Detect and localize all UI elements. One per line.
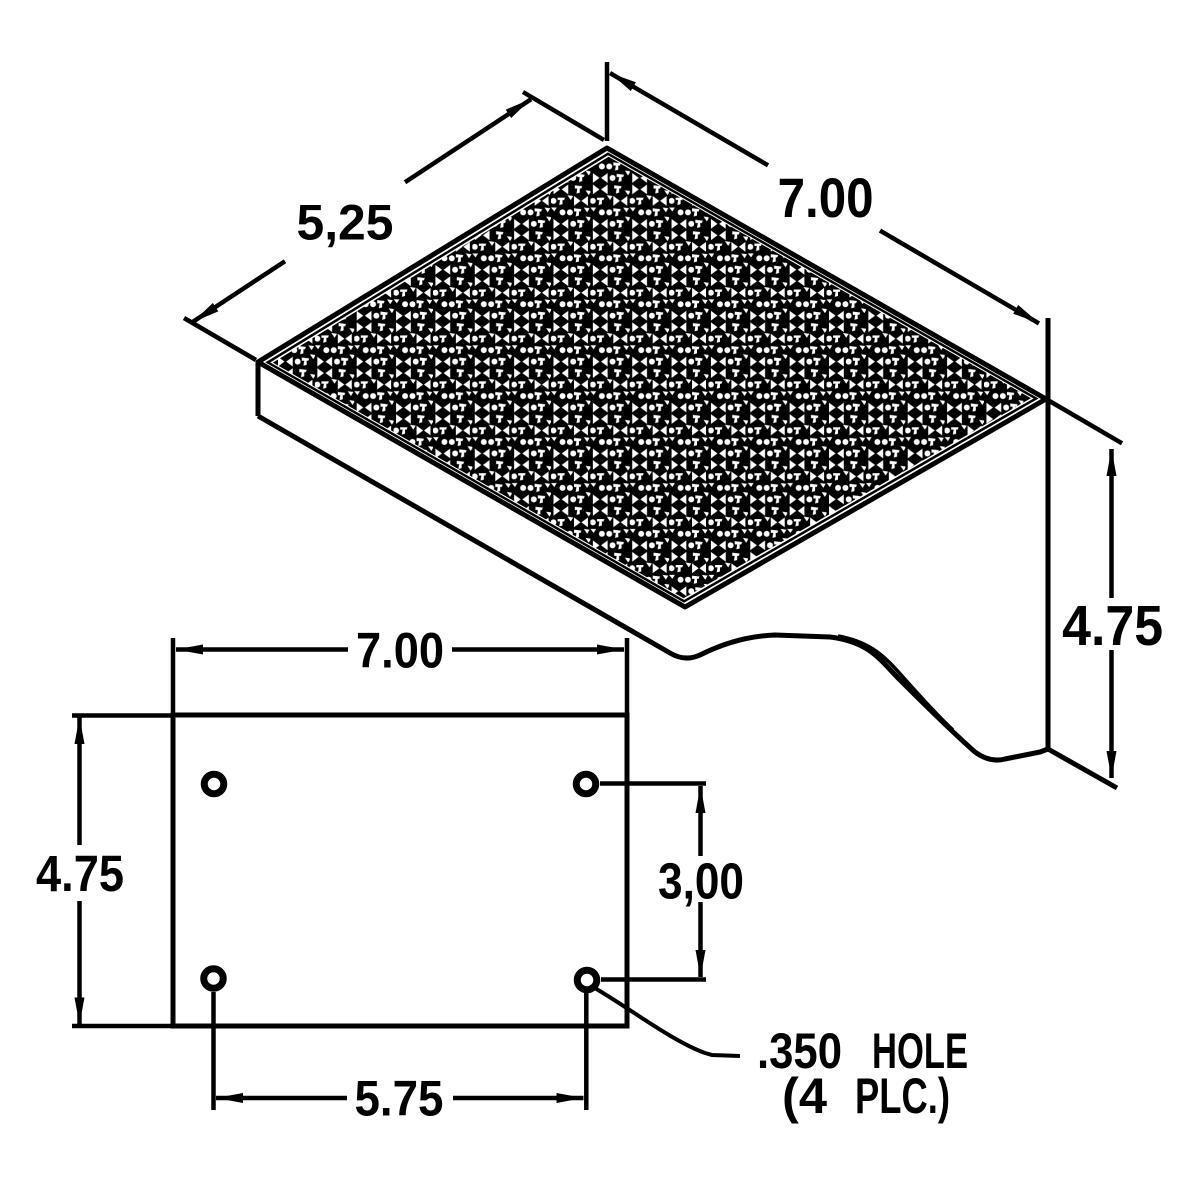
- svg-text:4.75: 4.75: [1062, 594, 1163, 658]
- svg-text:3,00: 3,00: [658, 853, 744, 910]
- svg-text:4.75: 4.75: [36, 845, 124, 902]
- svg-text:PLC.): PLC.): [855, 1068, 950, 1124]
- svg-text:5.75: 5.75: [355, 1071, 444, 1127]
- svg-text:7.00: 7.00: [356, 623, 444, 679]
- svg-text:5,25: 5,25: [297, 195, 394, 251]
- svg-text:(4: (4: [782, 1068, 827, 1124]
- svg-text:7.00: 7.00: [778, 166, 874, 229]
